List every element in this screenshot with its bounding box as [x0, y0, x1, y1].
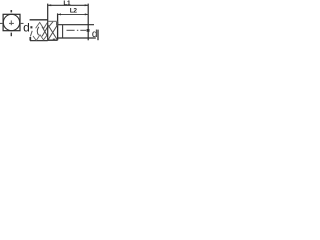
svg-text:L2: L2	[70, 8, 78, 15]
svg-text:d: d	[92, 29, 98, 40]
svg-text:L1: L1	[63, 0, 71, 7]
svg-text:d: d	[23, 20, 30, 34]
